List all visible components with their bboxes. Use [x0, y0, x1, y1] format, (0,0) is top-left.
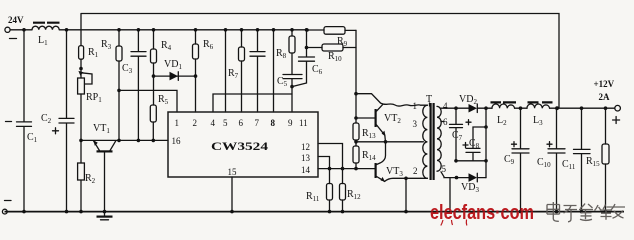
svg-text:3: 3 — [413, 119, 418, 129]
resistor R4 — [151, 28, 172, 78]
svg-text:2A: 2A — [599, 92, 611, 102]
T core — [431, 103, 434, 180]
transistor VT3 — [376, 142, 404, 182]
svg-text:6: 6 — [239, 118, 244, 128]
elecfans.com watermark — [427, 202, 536, 226]
wire pin4-pin9 net — [213, 94, 292, 112]
wire VT3 emitter to transformer pin2 — [385, 178, 421, 181]
capacitor C9 — [504, 108, 529, 213]
wire R9/R10 right vertical — [355, 30, 357, 123]
diode VD1 — [154, 59, 196, 80]
op-amp U1 CW3524 PWM controller box — [168, 112, 318, 177]
resistor R7 — [228, 28, 245, 112]
resistor R8 — [276, 28, 295, 75]
wire rectifier output vertical — [485, 108, 487, 177]
node junction C1 tap — [22, 28, 26, 32]
node +24V input terminal — [5, 15, 24, 39]
wire output rail right — [550, 107, 615, 109]
svg-text:1: 1 — [413, 101, 418, 111]
svg-text:5: 5 — [223, 118, 228, 128]
resistor R2 — [78, 140, 96, 213]
capacitor C6 — [292, 28, 323, 87]
wire top feedback bus from output — [81, 14, 559, 109]
inductor L3 — [527, 102, 553, 127]
wire output rail — [486, 107, 492, 109]
wire input rail to L1 — [10, 29, 32, 31]
svg-text:4: 4 — [211, 118, 216, 128]
inductor L2 — [491, 102, 517, 127]
ground symbol — [97, 212, 113, 220]
wire pin14 / VT3 base net — [318, 168, 375, 170]
diode VD3 — [461, 173, 486, 194]
wire main +24V rail — [59, 29, 307, 31]
wire pin15 to ground — [231, 177, 233, 212]
svg-text:15: 15 — [228, 167, 238, 177]
svg-text:4: 4 — [443, 101, 448, 111]
capacitor C7 — [450, 108, 472, 161]
capacitor C2 — [41, 28, 74, 213]
svg-text:13: 13 — [301, 153, 311, 163]
svg-text:5: 5 — [442, 164, 447, 174]
transistor VT2 — [356, 104, 401, 142]
svg-text:2: 2 — [193, 118, 198, 128]
svg-text:7: 7 — [255, 118, 260, 128]
svg-text:12: 12 — [301, 142, 310, 152]
svg-text:8: 8 — [271, 118, 276, 128]
capacitor C10 — [537, 108, 565, 213]
resistor R9 — [305, 27, 356, 48]
T primary winding — [423, 105, 428, 178]
svg-text:+12V: +12V — [594, 79, 615, 89]
resistor R5 — [150, 76, 168, 142]
resistor R6 — [193, 28, 214, 112]
wire VT2 collector to transformer pin1 — [381, 103, 421, 106]
svg-text:24V: 24V — [8, 15, 24, 25]
resistor R12 — [340, 169, 362, 214]
wire pin5 riser — [225, 30, 227, 112]
resistor R3 — [101, 28, 122, 142]
resistor R13 — [353, 123, 376, 146]
wire bottom ground bus — [5, 211, 625, 213]
resistor R10 — [307, 44, 357, 63]
transformer T — [413, 94, 449, 180]
wire center-tap net — [356, 141, 421, 143]
wire pin8 riser — [273, 30, 275, 112]
svg-text:9: 9 — [288, 118, 293, 128]
wire pin1 net — [119, 90, 177, 112]
wire pin13 net — [318, 157, 330, 169]
resistor R11 — [306, 169, 333, 214]
resistor R14 — [353, 146, 376, 170]
wire emitter return to ground — [405, 178, 407, 211]
diode VD2 — [456, 94, 486, 113]
transistor VT1 — [93, 123, 116, 213]
wire secondary top to VD2 — [441, 107, 457, 109]
potentiometer RP1 — [78, 69, 103, 141]
wire pin12 net — [318, 144, 343, 169]
inductor L1 — [32, 23, 60, 47]
T secondary winding — [437, 106, 441, 171]
wire VT2 collector feed — [356, 94, 381, 103]
node +12V output terminal — [594, 79, 621, 124]
svg-text:elecfans·com: elecfans·com — [430, 202, 534, 224]
capacitor C5 — [277, 75, 302, 113]
svg-text:14: 14 — [301, 165, 311, 175]
wire pin16 / VT1 node wire — [81, 139, 168, 141]
capacitor C8 — [463, 125, 488, 161]
wire snubber bottom link — [456, 160, 486, 162]
svg-text:11: 11 — [299, 118, 308, 128]
node ground-side input terminal — [2, 201, 11, 215]
resistor R15 — [586, 108, 609, 213]
svg-text:1: 1 — [175, 118, 180, 128]
电子发烧友 watermark glyphs — [547, 202, 625, 222]
capacitor C3 — [122, 28, 146, 142]
capacitor C1 — [6, 30, 38, 214]
wire output rail between L2 and L3, node C9 tap — [515, 107, 527, 109]
wire secondary bottom to VD3 — [441, 172, 469, 178]
svg-text:2: 2 — [413, 166, 418, 176]
capacitor C11 — [562, 108, 590, 213]
svg-text:CW3524: CW3524 — [211, 141, 268, 153]
svg-text:16: 16 — [172, 136, 182, 146]
resistor R1 — [79, 14, 99, 71]
wire center tap to ground — [449, 178, 451, 212]
capacitor C4 (timing, unlabeled) — [250, 28, 265, 112]
